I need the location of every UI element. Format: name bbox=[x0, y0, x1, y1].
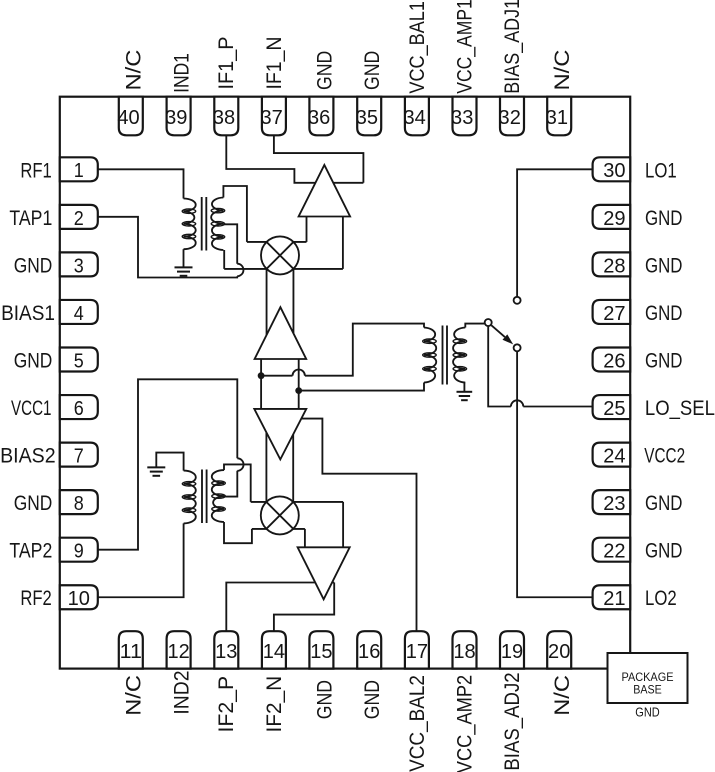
pin 14 label IF2_N bbox=[262, 676, 286, 733]
ground G1 for B1 bbox=[175, 267, 193, 275]
pin 16 box bbox=[357, 631, 381, 668]
pin 34 label VCC_BAL1 bbox=[405, 1, 429, 94]
transformer B2 core bbox=[202, 470, 207, 524]
svg-text:5: 5 bbox=[74, 350, 84, 372]
wire LO2 pin21 to switch throw 2 bbox=[517, 348, 593, 597]
pin 28 label GND bbox=[645, 254, 683, 277]
pin 30 label LO1 bbox=[645, 159, 677, 182]
op-amp T3 LO buffer up bbox=[255, 307, 307, 359]
wire LO buffer interstage left leg bbox=[260, 359, 262, 409]
svg-text:33: 33 bbox=[451, 107, 473, 129]
svg-text:30: 30 bbox=[603, 160, 625, 182]
svg-text:17: 17 bbox=[406, 641, 428, 663]
svg-text:GND: GND bbox=[645, 302, 683, 325]
pin 27 label GND bbox=[645, 302, 683, 325]
svg-text:BASE: BASE bbox=[633, 684, 662, 697]
pin 33 box bbox=[451, 97, 476, 136]
pin 25 box bbox=[593, 395, 631, 420]
pin 7 box bbox=[60, 443, 98, 468]
svg-text:GND: GND bbox=[645, 492, 683, 515]
pin 3 label GND bbox=[14, 254, 53, 277]
pin 38 box bbox=[213, 97, 238, 136]
pin 8 box bbox=[60, 490, 98, 515]
svg-text:VCC1: VCC1 bbox=[11, 397, 52, 420]
wire LO_SEL pin25 right segment bbox=[523, 406, 592, 408]
switch SW1 arm with arrow bbox=[491, 325, 513, 344]
wire LO1 pin30 to switch throw 1 bbox=[517, 169, 593, 297]
wire TAP1 upper segment to tap bbox=[223, 224, 237, 263]
wire B2 primary top to ground bbox=[156, 453, 183, 471]
pin 29 box bbox=[593, 205, 631, 230]
wire IF1_P pin38 to amp A1 bbox=[226, 135, 363, 183]
pin 1 box bbox=[60, 157, 98, 182]
wire node LO+ to B3 primary top bbox=[261, 375, 292, 377]
pin 36 label GND bbox=[312, 51, 336, 90]
svg-text:25: 25 bbox=[603, 398, 625, 420]
pin 21 label LO2 bbox=[645, 587, 677, 610]
svg-text:24: 24 bbox=[603, 446, 625, 468]
wire amp A2 right input leg bbox=[342, 502, 344, 547]
svg-text:22: 22 bbox=[603, 541, 625, 563]
wire hop TAP1 over IF line bbox=[237, 264, 243, 277]
pin 17 box bbox=[405, 631, 429, 668]
pin 33 label VCC_AMP1 bbox=[452, 0, 476, 94]
wire TAP1 pin2 to B1 secondary center tap bbox=[98, 217, 237, 278]
svg-text:GND: GND bbox=[14, 254, 53, 277]
svg-text:BIAS_ADJ2: BIAS_ADJ2 bbox=[500, 672, 524, 770]
wire LO buffer interstage right leg bbox=[298, 359, 300, 409]
svg-text:GND: GND bbox=[312, 680, 336, 719]
pin 34 box bbox=[403, 97, 428, 136]
pin 2 label TAP1 bbox=[9, 207, 52, 230]
svg-text:6: 6 bbox=[74, 398, 84, 420]
svg-text:13: 13 bbox=[215, 641, 237, 663]
svg-text:RF2: RF2 bbox=[20, 587, 51, 610]
svg-text:BIAS2: BIAS2 bbox=[0, 445, 56, 468]
pin 7 label BIAS2 bbox=[0, 445, 56, 468]
pin 23 label GND bbox=[645, 492, 683, 515]
svg-text:40: 40 bbox=[117, 107, 139, 129]
pin 40 box bbox=[117, 97, 142, 136]
IC package body outline bbox=[60, 97, 630, 669]
pin 37 box bbox=[260, 97, 285, 136]
svg-text:N/C: N/C bbox=[550, 675, 574, 716]
pin 5 box bbox=[60, 348, 98, 373]
svg-text:GND: GND bbox=[645, 207, 683, 230]
mixer M1 (channel 1) bbox=[261, 236, 299, 274]
wire node IF1 bottom line through mixer M1 bbox=[224, 268, 343, 270]
svg-text:N/C: N/C bbox=[122, 50, 146, 91]
wire hop LO+ over right leg bbox=[293, 370, 305, 376]
svg-text:VCC_BAL1: VCC_BAL1 bbox=[405, 1, 429, 94]
pin 31 box bbox=[546, 97, 571, 136]
pin 11 label N/C bbox=[122, 675, 146, 716]
pin 29 label GND bbox=[645, 207, 683, 230]
pin 40 label N/C bbox=[122, 50, 146, 91]
mixer M2 (channel 2) bbox=[261, 496, 299, 534]
pin 6 label VCC1 bbox=[11, 397, 52, 420]
pin 26 label GND bbox=[645, 350, 683, 373]
pin 3 box bbox=[60, 252, 98, 277]
svg-text:VCC2: VCC2 bbox=[644, 445, 685, 468]
wire IF2_P pin13 to amp A2 bbox=[226, 583, 334, 632]
svg-text:14: 14 bbox=[263, 641, 285, 663]
pin 35 box bbox=[356, 97, 381, 136]
transformer B3 primary coil bbox=[423, 328, 437, 383]
pin 5 label GND bbox=[14, 350, 53, 373]
pin 22 box bbox=[593, 538, 631, 563]
svg-text:21: 21 bbox=[603, 588, 625, 610]
wire node IF2 bottom line through mixer M2 bbox=[252, 528, 305, 530]
pin 32 label BIAS_ADJ1 bbox=[500, 0, 524, 94]
pin 36 box bbox=[308, 97, 333, 136]
wire TAP2 lower segment to tap bbox=[224, 471, 237, 497]
svg-text:GND: GND bbox=[360, 51, 384, 90]
pin 15 box bbox=[309, 631, 333, 668]
wire hop TAP2 over B2 secondary line bbox=[237, 458, 243, 471]
pin 31 label N/C bbox=[550, 50, 574, 91]
svg-text:4: 4 bbox=[74, 303, 84, 325]
op-amp A2 IF2 amplifier bbox=[298, 547, 350, 599]
pin 28 box bbox=[593, 252, 631, 277]
pin 23 box bbox=[593, 490, 631, 515]
svg-text:LO_SEL: LO_SEL bbox=[645, 397, 715, 420]
pin 15 label GND bbox=[312, 680, 336, 719]
wire mixer M1 LO left leg bbox=[266, 255, 268, 335]
svg-text:IF2_P: IF2_P bbox=[214, 676, 238, 733]
wire LO+ continue to B3 bbox=[305, 324, 424, 376]
wire B3 secondary top to switch pole bbox=[465, 324, 486, 328]
svg-text:PACKAGE: PACKAGE bbox=[622, 671, 674, 684]
svg-text:IND1: IND1 bbox=[170, 53, 194, 93]
switch SW1 pole contact bbox=[485, 319, 492, 326]
wire RF2 pin10 to B2 primary bottom bbox=[98, 523, 184, 597]
pin 11 box bbox=[119, 631, 143, 668]
svg-text:31: 31 bbox=[546, 107, 568, 129]
pin 32 box bbox=[499, 97, 524, 136]
wire mixer M1 LO right leg bbox=[292, 255, 294, 333]
svg-text:LO1: LO1 bbox=[645, 159, 677, 182]
wire B1 secondary bottom bbox=[223, 250, 225, 269]
switch SW1 throw contact LO2 bbox=[514, 344, 521, 351]
transformer B3 core bbox=[443, 326, 448, 385]
pin 10 box bbox=[60, 585, 98, 610]
wire hop LO_SEL over LO2 line bbox=[511, 400, 523, 406]
svg-text:36: 36 bbox=[308, 107, 330, 129]
svg-text:GND: GND bbox=[14, 350, 53, 373]
pin 16 label GND bbox=[360, 680, 384, 719]
svg-text:20: 20 bbox=[548, 641, 570, 663]
svg-text:BIAS_ADJ1: BIAS_ADJ1 bbox=[500, 0, 524, 94]
wire IF1_N pin37 to amp A1 bbox=[274, 135, 364, 183]
ground G3 for B3 bbox=[457, 392, 473, 400]
junction dot node LO+ bbox=[258, 372, 265, 379]
pin 9 box bbox=[60, 538, 98, 563]
pin 19 label BIAS_ADJ2 bbox=[500, 672, 524, 770]
svg-text:34: 34 bbox=[403, 107, 425, 129]
svg-text:18: 18 bbox=[453, 641, 475, 663]
pin 20 box bbox=[547, 631, 571, 668]
svg-text:GND: GND bbox=[14, 492, 53, 515]
wire B2 secondary top Z to mixer M2 bbox=[224, 464, 251, 502]
pin 12 box bbox=[167, 631, 191, 668]
wire IF2_N pin14 to amp A2 bbox=[274, 583, 334, 632]
svg-text:GND: GND bbox=[635, 704, 659, 719]
svg-text:LO2: LO2 bbox=[645, 587, 677, 610]
svg-text:GND: GND bbox=[645, 350, 683, 373]
pin 13 box bbox=[214, 631, 238, 668]
pin 14 box bbox=[262, 631, 286, 668]
svg-text:N/C: N/C bbox=[550, 50, 574, 91]
pin 18 label VCC_AMP2 bbox=[452, 675, 476, 772]
svg-text:27: 27 bbox=[603, 303, 625, 325]
transformer B1 core bbox=[202, 197, 207, 251]
svg-text:N/C: N/C bbox=[122, 675, 146, 716]
junction dot node LO- bbox=[295, 387, 302, 394]
wire node IF2 top line through mixer M2 bbox=[251, 501, 343, 503]
svg-text:23: 23 bbox=[603, 493, 625, 515]
svg-text:35: 35 bbox=[356, 107, 378, 129]
pin 2 box bbox=[60, 205, 98, 230]
wire VCC_BAL2 pin17 to LO buffer bbox=[301, 419, 416, 632]
pin 8 label GND bbox=[14, 492, 53, 515]
pin 21 box bbox=[593, 585, 631, 610]
pin 6 box bbox=[60, 395, 98, 420]
svg-text:TAP1: TAP1 bbox=[9, 207, 52, 230]
wire B3 secondary bottom to ground bbox=[463, 383, 465, 392]
op-amp T4 LO buffer down bbox=[254, 409, 306, 460]
svg-text:29: 29 bbox=[603, 208, 625, 230]
wire amp A1 left input leg bbox=[306, 217, 308, 242]
pin 17 label VCC_BAL2 bbox=[405, 675, 429, 772]
op-amp A1 IF1 amplifier bbox=[299, 165, 351, 217]
pin 4 label BIAS1 bbox=[1, 302, 55, 325]
pin 9 label TAP2 bbox=[9, 540, 52, 563]
svg-text:39: 39 bbox=[165, 107, 187, 129]
wire TAP2 pin9 to B2 secondary center tap bbox=[98, 379, 238, 549]
svg-text:IF1_P: IF1_P bbox=[214, 37, 238, 90]
wire node IF1 top line through mixer M1 bbox=[247, 241, 307, 243]
svg-text:GND: GND bbox=[645, 540, 683, 563]
svg-text:1: 1 bbox=[74, 160, 84, 182]
svg-text:9: 9 bbox=[74, 541, 84, 563]
svg-text:7: 7 bbox=[74, 446, 84, 468]
svg-text:VCC_AMP2: VCC_AMP2 bbox=[452, 675, 476, 772]
svg-text:GND: GND bbox=[312, 51, 336, 90]
svg-text:26: 26 bbox=[603, 350, 625, 372]
transformer B2 secondary coil bbox=[212, 470, 226, 522]
pin 25 label LO_SEL bbox=[645, 397, 715, 420]
pin 35 label GND bbox=[360, 51, 384, 90]
wire RF1 pin1 to B1 primary bbox=[98, 169, 184, 198]
pin 30 box bbox=[593, 157, 631, 182]
svg-text:32: 32 bbox=[499, 107, 521, 129]
pin 38 label IF1_P bbox=[214, 37, 238, 90]
svg-text:3: 3 bbox=[74, 255, 84, 277]
wire amp A1 right input leg bbox=[342, 217, 344, 269]
svg-text:16: 16 bbox=[358, 641, 380, 663]
pin 22 label GND bbox=[645, 540, 683, 563]
svg-text:15: 15 bbox=[310, 641, 332, 663]
svg-text:19: 19 bbox=[501, 641, 523, 663]
wire B1 secondary top to mixer M1 bbox=[223, 186, 247, 242]
wire amp A2 left input leg bbox=[304, 529, 306, 547]
svg-text:8: 8 bbox=[74, 493, 84, 515]
pin 26 box bbox=[593, 348, 631, 373]
svg-text:28: 28 bbox=[603, 255, 625, 277]
svg-text:RF1: RF1 bbox=[20, 159, 51, 182]
pin 39 label IND1 bbox=[170, 53, 194, 93]
ground G2 for B2 bbox=[147, 467, 165, 475]
wire mixer M2 LO right leg bbox=[292, 434, 294, 515]
wire B2 secondary bottom to mixer M2 bbox=[224, 522, 252, 543]
svg-text:IND2: IND2 bbox=[170, 671, 194, 715]
pin 37 label IF1_N bbox=[262, 37, 286, 90]
wire mixer M2 LO left leg bbox=[265, 432, 267, 515]
svg-text:11: 11 bbox=[120, 641, 142, 663]
svg-text:IF1_N: IF1_N bbox=[262, 37, 286, 90]
pin 1 label RF1 bbox=[20, 159, 51, 182]
package base gnd box bbox=[608, 653, 688, 719]
transformer B2 primary coil bbox=[182, 471, 196, 524]
pin 19 box bbox=[500, 631, 524, 668]
svg-text:IF2_N: IF2_N bbox=[262, 676, 286, 733]
svg-text:VCC_BAL2: VCC_BAL2 bbox=[405, 675, 429, 772]
pin 20 label N/C bbox=[550, 675, 574, 716]
wire B1 primary bottom to ground bbox=[183, 249, 185, 267]
svg-text:VCC_AMP1: VCC_AMP1 bbox=[452, 0, 476, 94]
svg-text:12: 12 bbox=[167, 641, 189, 663]
svg-text:38: 38 bbox=[213, 107, 235, 129]
wire LO_SEL pin25 left segment bbox=[488, 323, 511, 407]
transformer B1 primary coil bbox=[182, 199, 196, 250]
svg-text:2: 2 bbox=[74, 208, 84, 230]
svg-text:GND: GND bbox=[645, 254, 683, 277]
pin 24 box bbox=[593, 443, 631, 468]
svg-text:GND: GND bbox=[360, 680, 384, 719]
wire node LO- to B3 primary bottom bbox=[299, 383, 424, 391]
transformer B3 secondary coil bbox=[453, 328, 467, 383]
pin 24 label VCC2 bbox=[644, 445, 685, 468]
pin 27 box bbox=[593, 300, 631, 325]
pin 10 label RF2 bbox=[20, 587, 51, 610]
svg-text:37: 37 bbox=[260, 107, 282, 129]
pin 18 box bbox=[453, 631, 477, 668]
svg-text:TAP2: TAP2 bbox=[9, 540, 52, 563]
svg-text:10: 10 bbox=[68, 588, 90, 610]
pin 13 label IF2_P bbox=[214, 676, 238, 733]
svg-text:BIAS1: BIAS1 bbox=[1, 302, 55, 325]
pin 4 box bbox=[60, 300, 98, 325]
transformer B1 secondary coil bbox=[211, 198, 225, 251]
pin 12 label IND2 bbox=[170, 671, 194, 715]
pin 39 box bbox=[165, 97, 190, 136]
switch SW1 throw contact LO1 bbox=[514, 297, 521, 304]
